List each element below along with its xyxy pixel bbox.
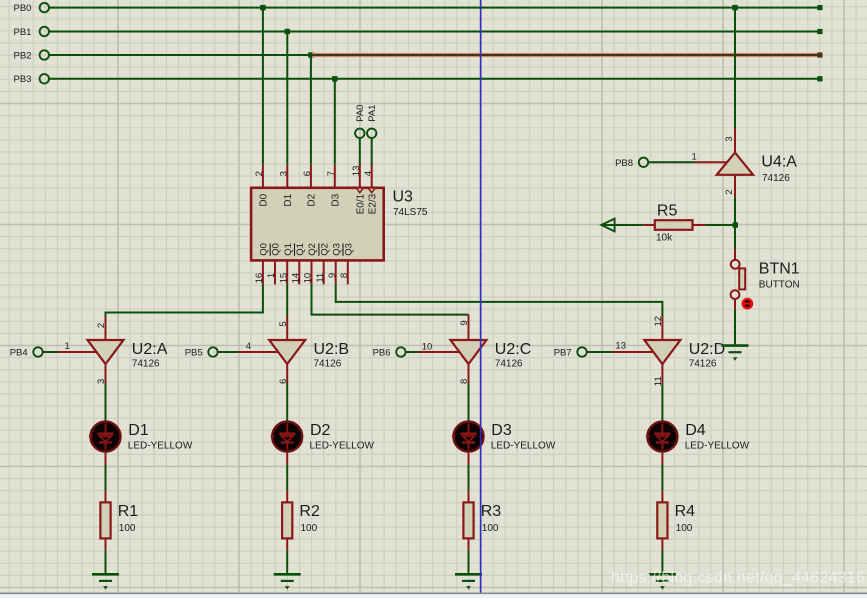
buffer U4:A 74126 bbox=[717, 153, 753, 175]
terminal PB8 bbox=[615, 158, 648, 169]
U3 pin 15 (Q1) bbox=[278, 260, 289, 284]
svg-text:E2/3: E2/3 bbox=[368, 193, 379, 214]
svg-text:U2:A: U2:A bbox=[132, 341, 168, 358]
svg-text:D0: D0 bbox=[259, 193, 270, 206]
D1 labels bbox=[128, 422, 193, 452]
U2:C reference text bbox=[495, 341, 531, 370]
svg-text:3: 3 bbox=[279, 171, 290, 176]
IC U3 74LS75 body bbox=[251, 188, 384, 261]
resistor R3 100 bbox=[463, 502, 473, 538]
U3 pin 2 (D0) bbox=[254, 164, 265, 188]
terminal PB6 bbox=[373, 347, 406, 358]
wire PB2 highlighted segment (brown over pink) bbox=[312, 52, 823, 57]
R2 labels bbox=[299, 503, 320, 534]
R4 labels bbox=[675, 503, 696, 534]
svg-text:Q3: Q3 bbox=[331, 243, 342, 256]
terminal PB3 bbox=[14, 74, 50, 85]
U3 pin 14 (!Q1) bbox=[291, 260, 302, 284]
wire R2 to ground bbox=[286, 538, 288, 574]
svg-text:https://blog.csdn.net/qq_44624: https://blog.csdn.net/qq_44624316 bbox=[611, 570, 865, 587]
wire arrow to R5 bbox=[602, 224, 655, 226]
svg-text:R1: R1 bbox=[118, 503, 139, 520]
svg-text:PB6: PB6 bbox=[373, 347, 391, 358]
resistor R1 100 bbox=[100, 502, 110, 538]
ground (D2 chain) bbox=[274, 574, 301, 589]
wire U4:A pin 2 down bbox=[734, 175, 736, 249]
svg-text:2: 2 bbox=[724, 189, 735, 194]
svg-text:Q2: Q2 bbox=[307, 243, 318, 256]
wire PB3 bus bbox=[49, 76, 823, 81]
R1 labels bbox=[118, 503, 139, 534]
wire U3 Q2 to U2:C bbox=[312, 284, 469, 314]
svg-text:E0/1: E0/1 bbox=[356, 193, 367, 214]
terminal PA1 bbox=[367, 105, 378, 138]
svg-text:LED-YELLOW: LED-YELLOW bbox=[128, 441, 193, 452]
LED D2 bbox=[271, 422, 303, 452]
svg-text:D2: D2 bbox=[307, 193, 318, 206]
U3 pin label !Q3 bbox=[343, 243, 354, 256]
U3 pin label Q2 bbox=[307, 243, 318, 256]
wire U3 Q0 to U2:A bbox=[106, 284, 263, 316]
wire BTN1 to ground bbox=[734, 299, 736, 346]
U3 pin label E0/1 bbox=[356, 193, 367, 214]
U2:B reference text bbox=[314, 341, 350, 370]
svg-text:D2: D2 bbox=[310, 422, 331, 439]
U3 pin label E2/3 bbox=[368, 193, 379, 214]
wire PA0 to U3 bbox=[359, 138, 361, 165]
buffer U2:A 74126 bbox=[88, 316, 124, 383]
U3 enable notch bbox=[369, 189, 375, 193]
svg-text:1: 1 bbox=[65, 341, 70, 352]
svg-text:10k: 10k bbox=[656, 233, 673, 244]
wire D1 anode bbox=[105, 383, 107, 421]
svg-text:7: 7 bbox=[326, 171, 337, 176]
svg-text:4: 4 bbox=[246, 341, 251, 352]
resistor R4 100 bbox=[657, 502, 667, 538]
junction on PB3 bus bbox=[332, 76, 337, 81]
U3 pin 10 (Q2) bbox=[303, 260, 314, 284]
LED D1 bbox=[89, 422, 121, 452]
svg-text:3: 3 bbox=[724, 136, 735, 141]
svg-text:U2:D: U2:D bbox=[689, 341, 725, 358]
svg-text:R5: R5 bbox=[657, 202, 678, 219]
svg-text:PA0: PA0 bbox=[355, 105, 366, 122]
svg-text:1: 1 bbox=[692, 152, 697, 163]
svg-text:LED-YELLOW: LED-YELLOW bbox=[491, 441, 556, 452]
U3 reference text bbox=[393, 188, 428, 218]
U3 pin label D3 bbox=[331, 193, 342, 206]
junction on PB0 bus (U4:A) bbox=[732, 5, 737, 10]
svg-text:R3: R3 bbox=[481, 503, 502, 520]
terminal PB2 bbox=[14, 50, 50, 61]
U3 pin 6 (D2) bbox=[302, 164, 313, 188]
svg-text:1: 1 bbox=[266, 273, 277, 278]
origin marker (vertical blue line) bbox=[480, 0, 482, 593]
junction on PB1 bus bbox=[285, 29, 290, 34]
svg-text:100: 100 bbox=[119, 523, 136, 534]
junction at R5/BTN1 node bbox=[733, 222, 738, 227]
svg-text:74126: 74126 bbox=[495, 358, 523, 369]
svg-text:2: 2 bbox=[96, 323, 107, 328]
U3 pin 16 (Q0) bbox=[254, 260, 265, 284]
wire R1 to ground bbox=[105, 538, 107, 574]
svg-text:U2:C: U2:C bbox=[495, 341, 531, 358]
terminal PB0 bbox=[14, 3, 50, 14]
U3 pin label Q0 bbox=[259, 243, 270, 256]
svg-text:PB8: PB8 bbox=[615, 158, 633, 169]
wire PB2 bus (green segment) bbox=[49, 54, 311, 56]
wire D1 cathode to R1 bbox=[105, 452, 107, 503]
svg-text:9: 9 bbox=[327, 273, 338, 278]
wire R3 to ground bbox=[468, 538, 470, 574]
wire R5 to node bbox=[693, 224, 736, 226]
watermark bbox=[611, 570, 865, 587]
wire D3 cathode to R3 bbox=[468, 452, 470, 503]
wire PB4 to U2:A enable bbox=[43, 351, 97, 353]
U3 pin 13 (E0/1) bbox=[351, 164, 362, 188]
svg-text:14: 14 bbox=[291, 273, 302, 284]
svg-text:16: 16 bbox=[254, 273, 265, 284]
svg-text:LED-YELLOW: LED-YELLOW bbox=[685, 441, 750, 452]
svg-text:LED-YELLOW: LED-YELLOW bbox=[310, 441, 375, 452]
U3 enable notch bbox=[357, 189, 363, 193]
svg-text:74LS75: 74LS75 bbox=[393, 207, 428, 218]
BTN1 labels bbox=[759, 260, 800, 290]
wire PB3 to U3 D3 bbox=[334, 79, 336, 165]
svg-text:74126: 74126 bbox=[762, 173, 790, 184]
svg-text:BUTTON: BUTTON bbox=[759, 279, 800, 290]
wire node to BTN1 bbox=[734, 249, 736, 261]
ground (D3 chain) bbox=[455, 574, 482, 589]
ground (D4 chain) bbox=[649, 574, 676, 589]
svg-text:PA1: PA1 bbox=[367, 105, 378, 122]
U3 pin 3 (D1) bbox=[279, 164, 290, 188]
svg-text:PB2: PB2 bbox=[14, 50, 32, 61]
svg-text:R2: R2 bbox=[299, 503, 320, 520]
U3 pin 1 (!Q0) bbox=[266, 260, 277, 284]
wire PB0 bus bbox=[49, 5, 823, 10]
svg-text:74126: 74126 bbox=[314, 358, 342, 369]
U3 pin 11 (!Q2) bbox=[315, 260, 326, 284]
wire D4 anode bbox=[661, 383, 663, 421]
svg-text:D1: D1 bbox=[283, 193, 294, 206]
U3 pin 4 (E2/3) bbox=[363, 164, 374, 188]
terminal PA0 bbox=[355, 105, 366, 138]
svg-text:2: 2 bbox=[254, 171, 265, 176]
svg-text:U4:A: U4:A bbox=[761, 154, 797, 171]
svg-text:100: 100 bbox=[676, 523, 693, 534]
svg-text:D3: D3 bbox=[331, 193, 342, 206]
D3 labels bbox=[491, 422, 556, 452]
svg-text:100: 100 bbox=[482, 523, 499, 534]
wire PB1 to U3 D1 bbox=[286, 32, 288, 165]
buffer U2:D 74126 bbox=[644, 317, 680, 384]
push button BTN1 bbox=[731, 260, 746, 299]
svg-text:PB5: PB5 bbox=[185, 347, 203, 358]
U3 pin label !Q1 bbox=[295, 243, 306, 256]
buffer U2:B 74126 bbox=[269, 316, 305, 383]
wire D3 anode bbox=[468, 383, 470, 421]
terminal PB5 bbox=[185, 347, 218, 358]
LED D3 bbox=[452, 422, 484, 452]
BTN1 state indicator dot bbox=[742, 299, 752, 308]
svg-text:74126: 74126 bbox=[132, 358, 160, 369]
R3 labels bbox=[481, 503, 502, 534]
svg-text:6: 6 bbox=[302, 171, 313, 176]
junction on PB0 bus bbox=[260, 5, 265, 10]
svg-text:BTN1: BTN1 bbox=[759, 260, 800, 277]
U3 pin label Q3 bbox=[331, 243, 342, 256]
U2:D reference text bbox=[689, 341, 725, 370]
terminal PB1 bbox=[14, 27, 50, 38]
wire PB7 to U2:D enable bbox=[587, 351, 654, 353]
svg-text:PB0: PB0 bbox=[14, 3, 32, 14]
wire D2 anode bbox=[286, 383, 288, 421]
wire PB6 to U2:C enable bbox=[406, 351, 460, 353]
svg-text:U3: U3 bbox=[393, 188, 414, 205]
R5 labels bbox=[656, 202, 677, 243]
terminal PB7 bbox=[554, 347, 587, 358]
svg-text:10: 10 bbox=[303, 273, 314, 284]
svg-text:11: 11 bbox=[315, 273, 326, 283]
svg-text:Q3: Q3 bbox=[343, 243, 354, 256]
U2:A reference text bbox=[132, 341, 168, 370]
svg-text:D1: D1 bbox=[128, 422, 149, 439]
U3 pin 9 (Q3) bbox=[327, 260, 338, 284]
wire U4:A output to PB0 bus bbox=[734, 8, 736, 154]
LED D4 bbox=[646, 422, 678, 452]
U3 pin label D1 bbox=[283, 193, 294, 206]
D2 labels bbox=[310, 422, 375, 452]
terminal arrow (R5 left) bbox=[601, 219, 614, 232]
svg-text:Q1: Q1 bbox=[295, 243, 306, 256]
svg-text:Q0: Q0 bbox=[271, 243, 282, 256]
svg-text:12: 12 bbox=[653, 316, 664, 327]
svg-text:D4: D4 bbox=[685, 422, 706, 439]
wire PA1 to U3 bbox=[371, 138, 373, 165]
wire PB1 bus bbox=[49, 29, 823, 34]
wire R4 to ground bbox=[661, 538, 663, 574]
svg-text:15: 15 bbox=[278, 273, 289, 284]
svg-text:13: 13 bbox=[615, 341, 626, 352]
svg-text:Q1: Q1 bbox=[283, 243, 294, 256]
U3 pin 7 (D3) bbox=[326, 164, 337, 188]
U3 pin label !Q0 bbox=[270, 243, 281, 256]
svg-text:9: 9 bbox=[459, 320, 470, 325]
wire PB0 to U3 D0 bbox=[262, 8, 264, 165]
wire D4 cathode to R4 bbox=[661, 452, 663, 503]
U4:A reference text bbox=[761, 154, 797, 184]
svg-text:Q2: Q2 bbox=[319, 243, 330, 256]
D4 labels bbox=[685, 422, 750, 452]
svg-text:8: 8 bbox=[339, 273, 350, 278]
resistor R2 100 bbox=[282, 502, 292, 538]
svg-text:4: 4 bbox=[363, 171, 374, 176]
svg-text:U2:B: U2:B bbox=[314, 341, 350, 358]
U3 pin label !Q2 bbox=[319, 243, 330, 256]
svg-text:100: 100 bbox=[301, 523, 318, 534]
U3 pin label D0 bbox=[259, 193, 270, 206]
wire D2 cathode to R2 bbox=[286, 452, 288, 503]
svg-text:R4: R4 bbox=[675, 503, 696, 520]
terminal PB4 bbox=[10, 347, 43, 358]
window bottom edge bbox=[0, 593, 867, 598]
junction on PB2 bus bbox=[308, 52, 313, 57]
wire PB5 to U2:B enable bbox=[218, 351, 279, 353]
wire PB8 to U4:A enable bbox=[648, 161, 727, 163]
svg-text:13: 13 bbox=[351, 166, 362, 177]
U3 pin 8 (!Q3) bbox=[339, 260, 350, 284]
wire U3 Q1 to U2:B bbox=[286, 284, 288, 316]
resistor R5 10k bbox=[655, 220, 693, 230]
wire PB2 to U3 D2 bbox=[310, 55, 312, 164]
buffer U2:C 74126 bbox=[451, 315, 487, 383]
svg-text:5: 5 bbox=[278, 321, 289, 326]
svg-text:Q0: Q0 bbox=[259, 243, 270, 256]
U3 pin label D2 bbox=[307, 193, 318, 206]
ground (BTN1) bbox=[722, 346, 749, 361]
svg-text:PB1: PB1 bbox=[14, 27, 32, 38]
svg-text:PB4: PB4 bbox=[10, 347, 28, 358]
svg-text:74126: 74126 bbox=[689, 358, 717, 369]
svg-text:PB3: PB3 bbox=[14, 74, 32, 85]
svg-text:PB7: PB7 bbox=[554, 347, 572, 358]
U3 pin label Q1 bbox=[283, 243, 294, 256]
wire U3 Q3 to U2:D bbox=[336, 284, 663, 316]
svg-text:D3: D3 bbox=[491, 422, 512, 439]
ground (D1 chain) bbox=[92, 574, 119, 589]
svg-text:10: 10 bbox=[422, 342, 433, 353]
